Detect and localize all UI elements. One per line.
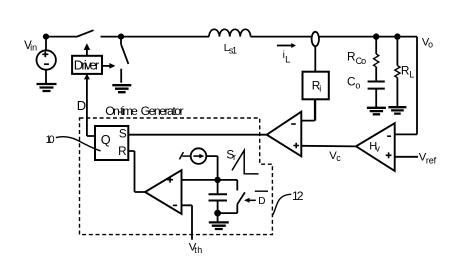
- svg-text:c: c: [336, 153, 341, 163]
- svg-text:o: o: [355, 80, 360, 90]
- svg-text:R: R: [401, 63, 410, 77]
- svg-text:Driver: Driver: [74, 58, 100, 73]
- svg-text:r: r: [233, 152, 236, 162]
- svg-text:L: L: [285, 55, 290, 66]
- svg-text:R: R: [347, 50, 356, 64]
- svg-text:v: v: [375, 143, 380, 153]
- svg-text:D: D: [77, 98, 86, 113]
- svg-text:S: S: [119, 128, 127, 141]
- svg-text:th: th: [194, 245, 202, 255]
- svg-text:D: D: [258, 196, 265, 207]
- svg-text:L: L: [409, 69, 414, 79]
- svg-text:in: in: [30, 43, 37, 53]
- svg-text:Q: Q: [101, 133, 111, 147]
- svg-text:ref: ref: [426, 155, 437, 165]
- svg-text:Generator: Generator: [141, 104, 184, 118]
- svg-text:s1: s1: [229, 46, 237, 56]
- svg-text:i: i: [319, 84, 321, 94]
- svg-text:12: 12: [292, 189, 304, 203]
- svg-text:On-time: On-time: [105, 104, 138, 118]
- svg-text:10: 10: [46, 134, 55, 146]
- svg-text:o: o: [428, 39, 433, 49]
- svg-text:R: R: [118, 145, 126, 158]
- svg-text:Co: Co: [356, 56, 367, 66]
